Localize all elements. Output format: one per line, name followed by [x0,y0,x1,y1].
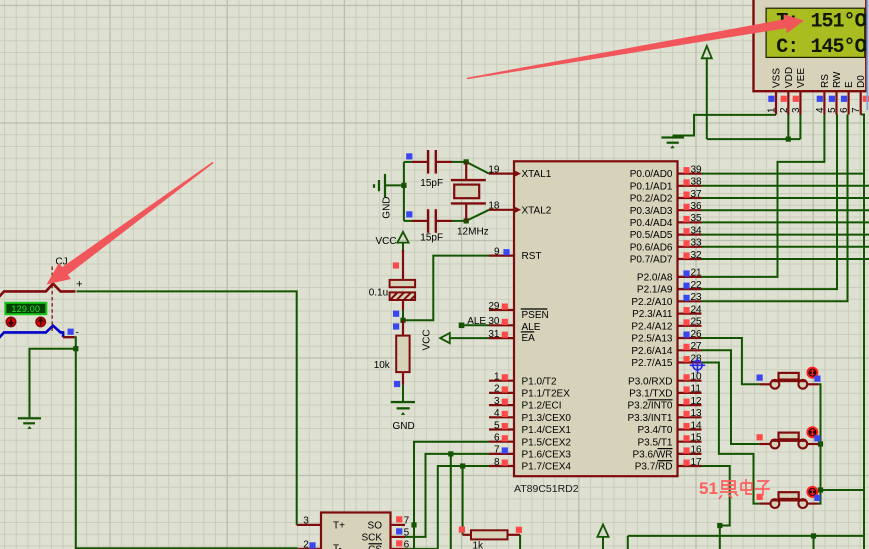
svg-text:0.1u: 0.1u [369,288,388,299]
capacitor C2 15pF [406,209,452,243]
svg-text:E: E [844,81,855,88]
svg-text:P1.6/CEX3: P1.6/CEX3 [522,450,572,461]
svg-text:15pF: 15pF [420,232,443,243]
svg-text:P1.1/T2EX: P1.1/T2EX [522,389,571,400]
svg-text:P1.5/CEX2: P1.5/CEX2 [522,437,572,448]
wire P2.7 to button3 [702,363,760,504]
svg-text:12MHz: 12MHz [457,227,489,238]
svg-text:P2.7/A15: P2.7/A15 [631,358,673,369]
svg-text:AT89C51RD2: AT89C51RD2 [514,483,579,495]
wire P1.6 to SCK [405,454,489,537]
wire P0.4 row [702,221,869,223]
ground symbol TC [18,417,41,429]
svg-text:32: 32 [691,250,703,261]
wire RS net [702,115,825,277]
wire P0.0 row [702,173,865,175]
wire P2.5 to button1 [702,338,760,384]
U1 pin 34 [678,225,703,236]
resistor R1 10k [374,320,410,387]
U1 pin 27 [678,341,703,352]
svg-text:11: 11 [691,384,702,395]
wire b3 link [818,502,820,504]
svg-text:CS: CS [368,545,382,549]
U1 pin 3 [489,396,514,407]
U1 pin 11 [678,384,702,395]
U1 pin 26 [678,329,703,340]
wire P1.7 to CS [405,466,489,549]
svg-text:P3.5/T1: P3.5/T1 [637,437,672,448]
op-amp? MCU U1 AT89C51RD2 body [514,161,678,476]
wire RST net [403,256,489,321]
ground symbol crystal GND [373,174,404,219]
crystal X1 12MHz [451,162,489,238]
wire P2.6 to button2 [702,350,760,444]
U1 pin 16 [678,445,703,456]
svg-text:P3.3/INT1: P3.3/INT1 [627,413,672,424]
svg-text:19: 19 [488,164,500,175]
svg-text:39: 39 [691,164,703,175]
U1 pin 22 [678,280,703,291]
svg-text:36: 36 [691,201,703,212]
svg-text:2: 2 [779,107,790,113]
svg-text:7: 7 [404,515,410,526]
svg-text:P0.3/AD3: P0.3/AD3 [630,206,673,217]
wire D0 vertical right edge [861,115,864,549]
U1 pin 15 [678,433,703,444]
MAX6675 U2 body [321,513,391,549]
node junction SO [411,522,416,527]
U1 pin 28 [678,353,703,364]
node junction RST [400,318,405,323]
wire P0.3 row [702,209,869,211]
U1 pin 10 [678,372,703,383]
svg-text:29: 29 [488,301,500,312]
svg-text:P0.4/AD4: P0.4/AD4 [630,218,673,229]
marker blue TC1 [68,329,74,335]
svg-text:P2.6/A14: P2.6/A14 [631,346,673,357]
svg-text:SCK: SCK [361,533,382,544]
LCD1 pin 1 VSS [767,68,783,115]
U1 pin 29 [488,301,514,312]
svg-text:30: 30 [488,316,500,327]
svg-text:26: 26 [691,329,703,340]
svg-text:VCC: VCC [376,236,397,247]
svg-text:27: 27 [691,341,703,352]
wire cap bus left vertical [403,162,405,221]
U1 pin 37 [678,189,703,200]
wire bottom horizontal [628,535,864,537]
U1 pin 31 [488,329,514,340]
wire VDD up [787,115,789,140]
svg-text:EA: EA [522,333,536,344]
button S2 [757,427,821,448]
svg-text:37: 37 [691,189,703,200]
node junction gnd-crystal [401,183,406,188]
svg-text:P2.1/A9: P2.1/A9 [637,285,673,296]
node junction X1 top [464,159,469,164]
node junction P3.7 bottom [717,523,722,528]
svg-text:51: 51 [699,479,718,498]
LCD1 pin 3 VEE [791,68,807,115]
svg-text:3: 3 [494,396,500,407]
svg-text:SO: SO [368,521,383,532]
svg-text:P2.4/A12: P2.4/A12 [631,321,673,332]
LCD1 pin 7 D0 [851,75,869,115]
svg-text:T-: T- [333,544,342,549]
U1 pin 38 [678,177,703,188]
svg-text:P3.2/INT0: P3.2/INT0 [627,401,672,412]
power VCC arrow EA [422,329,490,350]
U2 pin 7 SO [391,515,410,526]
svg-text:RST: RST [522,251,542,262]
wire VEE up [799,115,801,140]
wire TC+ to T+ [77,291,297,525]
svg-text:P0.2/AD2: P0.2/AD2 [630,194,673,205]
svg-text:P3.4/T0: P3.4/T0 [637,425,672,436]
U1 pin 17 [678,457,703,468]
wire P0.6 row [702,246,869,248]
capacitor C3 0.1u [369,250,415,310]
U1 pin 23 [678,292,703,303]
svg-text:P1.2/ECI: P1.2/ECI [522,401,562,412]
U2 pin 5 SCK [391,527,410,538]
svg-text:21: 21 [691,268,703,279]
resistor R2 1k [459,527,522,549]
button S3 [757,487,821,508]
marker blue rst1 [393,311,399,317]
U1 pin 30 [488,316,514,327]
ground symbol LCD [662,136,684,148]
wire VSS to ground [673,115,777,136]
U1 pin 9 [489,246,514,257]
svg-text:+: + [76,279,82,291]
U1 pin 5 [489,420,514,431]
svg-text:8: 8 [494,457,500,468]
node junction bottom [811,533,816,538]
wire buttons right rail [818,384,820,501]
svg-text:P0.0/AD0: P0.0/AD0 [630,169,673,180]
svg-text:15: 15 [691,433,703,444]
wire P0.5 row [702,234,869,236]
U1 pin 32 [678,250,703,261]
wire TC- to ground [30,349,76,418]
wire XTAL1 diagonal [466,162,489,174]
svg-text:D0: D0 [856,75,867,88]
U1 pin 19 [488,164,521,176]
svg-text:25: 25 [691,317,703,328]
U1 pin 13 [678,408,703,419]
svg-text:6: 6 [494,433,500,444]
svg-text:C:: C: [776,36,798,59]
wire rail to right edge [821,489,865,491]
U1 pin 18 [488,201,521,213]
watermark 51hei [699,479,770,499]
svg-text:31: 31 [488,329,500,340]
svg-text:VDD: VDD [784,67,795,88]
svg-text:34: 34 [691,225,703,236]
svg-text:2: 2 [303,539,309,549]
wire bottom corner down [627,536,629,549]
svg-text:6: 6 [839,107,850,113]
svg-text:5: 5 [827,107,838,113]
U1 left internal labels [521,169,572,472]
node junction VDD [786,137,791,142]
power VCC arrow LCD [702,46,712,139]
svg-text:13: 13 [691,408,703,419]
U1 pin 33 [678,238,703,249]
U1 pin 7 [489,445,514,456]
svg-text:145°C: 145°C [811,36,867,59]
svg-text:RW: RW [832,71,843,88]
U1 right internal labels [627,169,672,472]
svg-text:P2.2/A10: P2.2/A10 [631,297,673,308]
U1 pin 6 [489,433,514,444]
wire X2 to R2 [462,466,464,535]
node junction TC- [73,346,78,351]
svg-text:5: 5 [494,420,500,431]
svg-text:15pF: 15pF [420,178,443,189]
svg-text:151°C: 151°C [811,11,867,34]
U1 pin 2 [489,384,514,395]
svg-text:22: 22 [691,280,703,291]
svg-text:10: 10 [691,372,703,383]
wire C2 left [404,220,412,222]
svg-text:38: 38 [691,177,703,188]
svg-text:9: 9 [494,246,500,257]
window edge line [866,0,868,110]
node junction P1.6 [448,451,453,456]
LCD1 pin 5 RW [827,71,843,115]
svg-text:P2.0/A8: P2.0/A8 [637,273,673,284]
svg-text:P0.7/AD7: P0.7/AD7 [630,255,673,266]
svg-text:P0.5/AD5: P0.5/AD5 [630,230,673,241]
svg-text:33: 33 [691,238,703,249]
svg-text:P0.1/AD1: P0.1/AD1 [630,181,673,192]
svg-text:VEE: VEE [796,68,807,88]
U1 pin 21 [678,268,703,279]
U1 pin 24 [678,304,703,315]
svg-text:P3.6/WR: P3.6/WR [632,450,672,461]
svg-text:P2.3/A11: P2.3/A11 [632,309,673,320]
svg-text:129.00: 129.00 [11,304,40,314]
svg-text:14: 14 [691,420,703,431]
node junction P1.7 [460,463,465,468]
node junction X1 bottom [464,218,469,223]
svg-text:3: 3 [303,515,309,526]
svg-text:P1.7/CEX4: P1.7/CEX4 [522,462,572,473]
svg-text:16: 16 [691,445,703,456]
svg-text:1k: 1k [473,541,485,549]
LCD1 pin 4 RS [815,74,831,115]
svg-text:24: 24 [691,304,703,315]
svg-text:4: 4 [494,408,500,419]
wire C2 right to junction [452,220,466,222]
U1 pin 4 [489,408,514,419]
svg-text:P3.7/RD: P3.7/RD [635,462,673,473]
wire P1.5 to SO [414,442,489,549]
svg-text:XTAL1: XTAL1 [522,169,552,180]
wire R1 to gnd [402,385,404,401]
U2 pin 3 T+ [297,515,321,526]
svg-text:ALE: ALE [467,316,486,327]
svg-text:VSS: VSS [772,68,783,88]
svg-text:3: 3 [791,107,802,113]
U1 pin 12 [678,396,703,407]
wire XTAL2 diagonal [466,210,489,221]
LCD1 pin 2 VDD [779,67,795,115]
wire VCC to C3 [402,250,404,252]
wire C1 left [404,161,412,163]
svg-text:1: 1 [767,107,778,113]
svg-text:VCC: VCC [422,329,433,350]
wire C3 to junction [402,310,404,320]
wire P0.1 row [702,185,869,187]
annotation arrow 2 [467,14,804,79]
wire X1 down [450,454,452,549]
wire TC- to U2 T- [76,349,297,549]
svg-text:17: 17 [691,457,703,468]
U1 pin 14 [678,420,703,431]
U1 pin 8 [489,457,514,468]
svg-text:T+: T+ [333,521,345,532]
svg-text:23: 23 [691,292,703,303]
power VCC arrow bottom [597,525,608,549]
wire E net [702,115,848,302]
wire TC- down [75,337,76,349]
power VCC arrow RST [376,232,409,250]
svg-text:35: 35 [691,213,703,224]
wire VDD VEE [707,138,801,140]
wire ALE with end dot [459,316,489,328]
annotation arrow 1 [47,162,214,285]
svg-text:12: 12 [691,396,703,407]
svg-text:P1.0/T2: P1.0/T2 [522,376,557,387]
svg-text:5: 5 [404,527,410,538]
wire R2 right down [519,535,521,549]
wire P3.7 route down [702,466,730,549]
svg-text:P3.0/RXD: P3.0/RXD [628,376,672,387]
svg-text:XTAL2: XTAL2 [522,205,552,216]
svg-text:P1.3/CEX0: P1.3/CEX0 [522,413,572,424]
svg-text:7: 7 [494,445,500,456]
svg-text:GND: GND [393,421,415,432]
svg-text:RS: RS [820,74,831,88]
capacitor C1 15pF [406,150,452,189]
svg-text:PSEN: PSEN [522,310,549,321]
node junction rail-b2 [818,441,823,446]
svg-text:GND: GND [382,196,393,218]
svg-text:7: 7 [851,107,862,113]
U1 pin 36 [678,201,703,212]
marker blue rst2 [393,323,399,329]
svg-text:10k: 10k [374,360,391,371]
wire RW net [702,115,838,290]
svg-text:18: 18 [488,201,500,212]
svg-text:P1.4/CEX1: P1.4/CEX1 [522,425,572,436]
svg-text:1: 1 [494,372,500,383]
svg-text:2: 2 [494,384,500,395]
LCD module LCD1 body+screen [754,0,867,91]
LCD1 pin 6 E [839,81,855,115]
wire bottom stub down [813,536,815,549]
svg-text:P3.1/TXD: P3.1/TXD [629,389,672,400]
node junction rail-b3 [818,487,823,492]
svg-text:P0.6/AD6: P0.6/AD6 [630,242,673,253]
svg-text:4: 4 [815,107,826,113]
ground symbol R1 GND [391,401,415,432]
svg-text:P2.5/A13: P2.5/A13 [631,334,673,345]
U2 pin 6 CS [391,539,410,549]
thermocouple TC1 [0,267,76,340]
wire P0.2 row [702,197,869,199]
wire C1 right to junction [452,161,466,163]
button S1 [757,368,821,389]
cursor crosshair [690,358,705,373]
U1 pin 39 [678,164,703,175]
U2 pin 2 T- [297,539,321,549]
U1 pin 1 [489,372,514,383]
wire P0.7 row [702,258,869,260]
svg-text:6: 6 [404,539,410,549]
U1 pin 35 [678,213,703,224]
U1 pin 25 [678,317,703,328]
